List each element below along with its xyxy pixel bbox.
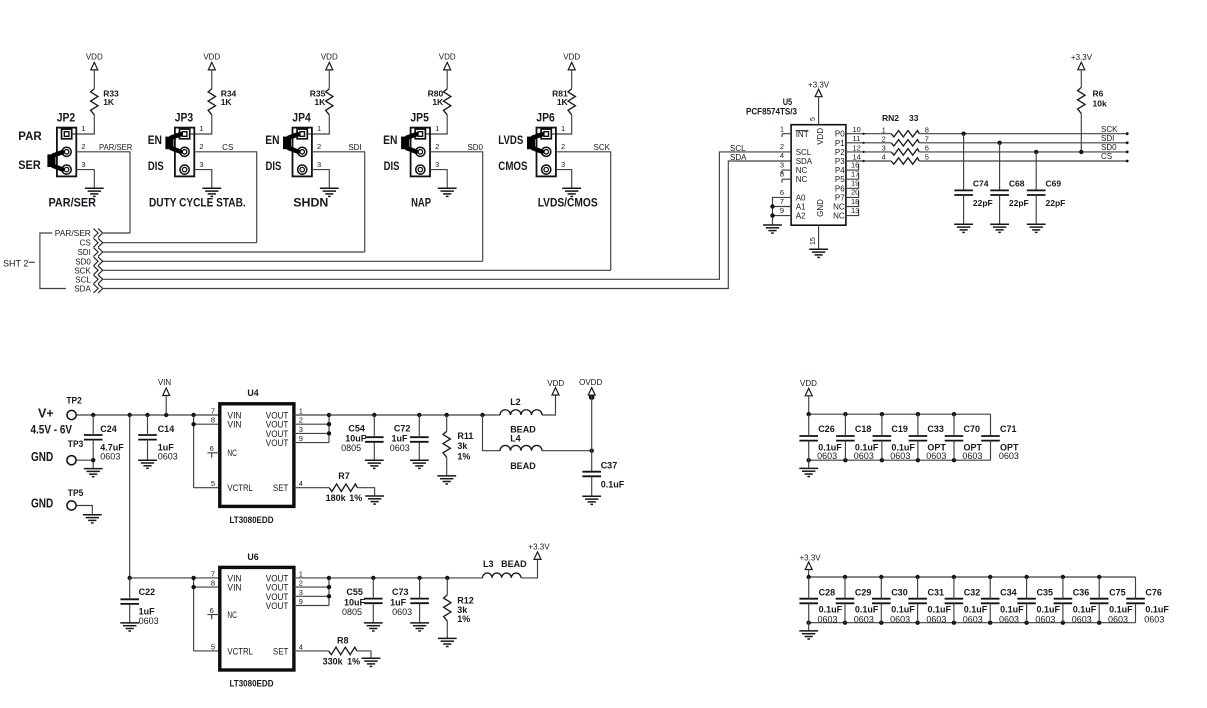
wire R8 to ground	[357, 651, 371, 658]
ground	[562, 188, 581, 196]
wire to C68	[999, 143, 1001, 191]
wire C14 to ground	[147, 440, 149, 461]
svg-text:NC: NC	[227, 610, 237, 621]
wire VDD to R	[571, 70, 573, 89]
svg-text:11: 11	[853, 134, 861, 143]
capacitor C69 22pF	[1027, 179, 1065, 208]
svg-text:VDD: VDD	[800, 379, 817, 388]
svg-text:VIN: VIN	[227, 420, 241, 431]
svg-text:SDA: SDA	[796, 157, 813, 166]
svg-text:C76: C76	[1145, 587, 1162, 597]
net flag CS	[94, 238, 103, 247]
svg-text:4: 4	[882, 153, 886, 162]
net flag SCK	[94, 266, 103, 275]
svg-text:0603: 0603	[926, 451, 946, 461]
ground	[438, 188, 457, 196]
wire 3.3V bank top rail	[809, 576, 1136, 578]
U5 pin 19 stub	[846, 179, 859, 189]
svg-text:10k: 10k	[1093, 99, 1107, 109]
svg-text:VDD: VDD	[439, 53, 456, 62]
wire U5 GND pin 15	[818, 225, 820, 249]
capacitor C37 0.1uF	[582, 460, 624, 489]
svg-text:12: 12	[853, 143, 861, 152]
power flag VDD (JP3 pull-up)	[203, 53, 220, 70]
svg-text:0603: 0603	[890, 451, 910, 461]
svg-text:V+: V+	[38, 406, 54, 421]
wire bus row SDI	[103, 251, 365, 253]
svg-text:SHDN: SHDN	[293, 196, 328, 210]
capacitor C68 22pF	[990, 179, 1028, 208]
svg-text:C31: C31	[928, 587, 945, 597]
junction dot C69	[1034, 150, 1038, 154]
U5 pin 18 stub	[846, 197, 859, 207]
junction dots 3.3V bank top rail	[807, 575, 1102, 579]
svg-text:DIS: DIS	[148, 161, 164, 173]
IC U5 PCF8574TS/3	[746, 97, 846, 225]
wire bus row SD0	[103, 260, 483, 262]
U5 inside pin names	[796, 128, 846, 221]
wire net SDI from pin 2 to bus	[312, 152, 365, 252]
svg-text:+3.3V: +3.3V	[800, 553, 822, 562]
svg-text:C22: C22	[139, 587, 156, 597]
svg-text:9: 9	[299, 434, 303, 443]
wire R to pin 1	[72, 115, 95, 134]
svg-text:1uF: 1uF	[390, 597, 407, 607]
svg-text:C32: C32	[964, 587, 981, 597]
svg-text:4: 4	[299, 479, 303, 488]
svg-text:2: 2	[81, 142, 85, 151]
wire 3.3V bank bottom rail	[809, 622, 1136, 624]
svg-text:16: 16	[851, 160, 859, 169]
junction dot C74	[961, 132, 965, 136]
junction dot OVDD node	[590, 449, 594, 453]
svg-text:5: 5	[925, 153, 929, 162]
svg-text:0603: 0603	[1144, 615, 1164, 625]
wire VDD bank to ground	[808, 460, 810, 468]
ground (R7)	[365, 496, 384, 504]
svg-text:A1: A1	[796, 203, 806, 212]
svg-text:C74: C74	[973, 179, 989, 189]
svg-text:10uF: 10uF	[345, 434, 367, 444]
regulator U6 LT3080EDD	[210, 552, 303, 670]
wire cap column	[844, 577, 846, 623]
power flag VDD (decoupling bank)	[800, 379, 817, 396]
svg-text:SDI: SDI	[77, 248, 90, 257]
wire rail to U6 VIN	[130, 577, 220, 579]
wire VDD bank bottom rail	[809, 459, 991, 461]
pin connection dot	[863, 160, 865, 162]
net flag SDA	[94, 284, 103, 293]
svg-text:C33: C33	[927, 424, 944, 434]
svg-text:0.1uF: 0.1uF	[1000, 605, 1024, 615]
svg-text:CS: CS	[222, 143, 233, 152]
capacitor C14 1uF	[138, 424, 178, 461]
svg-text:20: 20	[851, 188, 859, 197]
wire C24 to TP3 wire	[92, 440, 94, 461]
svg-text:7: 7	[925, 134, 929, 143]
wire VDD rail from U4	[329, 414, 500, 416]
svg-text:SD0: SD0	[1101, 143, 1117, 152]
svg-text:U4: U4	[247, 388, 259, 399]
wire VDD to R	[446, 70, 448, 89]
svg-text:VCTRL: VCTRL	[227, 646, 253, 657]
svg-text:VOUT: VOUT	[266, 438, 289, 449]
svg-text:CMOS: CMOS	[498, 161, 527, 173]
svg-text:CS: CS	[80, 239, 91, 248]
wire to U4 VIN pin8 and VCTRL	[194, 415, 220, 488]
U5 pin 17 stub	[846, 170, 859, 180]
sheet connector label SHT 2	[3, 258, 35, 268]
svg-text:VDD: VDD	[203, 53, 220, 62]
wire to C69	[1035, 152, 1037, 191]
pin numbers	[81, 124, 85, 169]
svg-text:SDI: SDI	[1101, 134, 1114, 143]
svg-text:TP2: TP2	[66, 396, 82, 407]
wire rail to C14	[147, 415, 149, 435]
svg-text:9: 9	[299, 597, 303, 606]
test point TP2	[66, 396, 82, 420]
capacitor C33 OPT	[909, 424, 947, 461]
wire TP5 to ground	[76, 506, 92, 515]
svg-text:0.1uF: 0.1uF	[928, 605, 952, 615]
regulator U4 LT3080EDD	[210, 388, 303, 506]
svg-text:C18: C18	[855, 424, 872, 434]
ground (R12)	[438, 638, 457, 646]
svg-text:+3.3V: +3.3V	[808, 81, 830, 90]
svg-text:P5: P5	[835, 175, 845, 184]
wire pin 3 to ground	[312, 170, 329, 189]
svg-text:BEAD: BEAD	[501, 559, 527, 569]
svg-text:C34: C34	[1000, 587, 1017, 597]
svg-text:0603: 0603	[926, 615, 946, 625]
jumper JP4	[292, 110, 312, 176]
svg-text:DUTY CYCLE STAB.: DUTY CYCLE STAB.	[149, 196, 246, 210]
svg-text:0603: 0603	[890, 615, 910, 625]
svg-text:LT3080EDD: LT3080EDD	[230, 515, 274, 526]
svg-text:DIS: DIS	[384, 161, 400, 173]
svg-text:0603: 0603	[854, 615, 874, 625]
svg-text:0603: 0603	[158, 451, 178, 461]
svg-text:L3: L3	[483, 559, 494, 569]
svg-text:VDD: VDD	[563, 53, 580, 62]
svg-text:2: 2	[780, 142, 784, 151]
svg-text:LT3080EDD: LT3080EDD	[230, 679, 274, 690]
svg-text:2: 2	[317, 142, 321, 151]
jumper JP6	[536, 110, 556, 176]
wire cap to ground	[963, 195, 965, 224]
pin numbers	[317, 124, 321, 169]
svg-text:R12: R12	[457, 595, 474, 605]
svg-text:NC: NC	[833, 212, 845, 221]
svg-text:1uF: 1uF	[391, 434, 408, 444]
svg-text:8: 8	[780, 170, 784, 179]
svg-text:SDA: SDA	[730, 153, 747, 162]
svg-text:0603: 0603	[962, 451, 982, 461]
wire end dot	[1126, 132, 1129, 135]
svg-text:0603: 0603	[392, 607, 412, 617]
svg-text:VDD: VDD	[86, 53, 103, 62]
svg-text:2: 2	[299, 579, 303, 588]
ground	[320, 188, 339, 196]
wire end dot	[1126, 160, 1129, 163]
junction dot C22	[128, 576, 132, 580]
svg-text:1: 1	[81, 124, 85, 133]
svg-text:8: 8	[211, 579, 215, 588]
svg-text:NC: NC	[796, 175, 808, 184]
test point TP3	[67, 439, 83, 465]
svg-text:C55: C55	[346, 587, 363, 597]
svg-text:1%: 1%	[347, 657, 360, 667]
svg-text:SCK: SCK	[1101, 125, 1118, 134]
svg-text:0.1uF: 0.1uF	[964, 605, 988, 615]
svg-text:C37: C37	[601, 460, 618, 470]
wire +3.3V to U5 pin 5	[818, 97, 820, 125]
svg-text:A2: A2	[796, 212, 806, 221]
capacitor C29 0.1uF	[836, 587, 879, 624]
svg-text:5: 5	[810, 117, 817, 121]
wire SET to R7	[294, 487, 329, 489]
svg-text:1K: 1K	[221, 97, 233, 107]
U5 pin 16 stub	[846, 160, 859, 170]
svg-text:13: 13	[851, 206, 859, 215]
svg-text:0805: 0805	[342, 607, 362, 617]
wire cap column	[808, 577, 810, 623]
svg-text:0603: 0603	[1035, 615, 1055, 625]
pin numbers 6 7 9	[780, 188, 784, 215]
svg-text:7: 7	[211, 569, 215, 578]
shunt on JP3	[165, 134, 180, 151]
svg-text:DIS: DIS	[266, 161, 282, 173]
svg-text:0.1uF: 0.1uF	[1037, 605, 1061, 615]
svg-text:0603: 0603	[854, 451, 874, 461]
net flag SDI	[94, 248, 103, 257]
svg-text:1: 1	[561, 124, 565, 133]
svg-text:NC: NC	[833, 203, 845, 212]
svg-text:2: 2	[882, 134, 886, 143]
svg-text:15: 15	[810, 237, 817, 245]
wire VDD to R	[328, 70, 330, 89]
capacitor C19 0.1uF	[873, 424, 916, 461]
capacitor C73 1uF	[390, 587, 429, 617]
wire cap to ground	[999, 195, 1001, 224]
wire to C74	[963, 134, 965, 191]
ground (C72)	[410, 460, 429, 468]
svg-text:GND: GND	[31, 449, 53, 464]
wire VIN flag	[165, 396, 167, 416]
svg-text:C75: C75	[1109, 587, 1126, 597]
resistor network RN2 33	[882, 113, 929, 164]
svg-text:EN: EN	[265, 135, 279, 147]
jumper JP5	[410, 110, 430, 176]
pin connection dot	[863, 142, 865, 144]
svg-text:+3.3V: +3.3V	[528, 543, 550, 552]
svg-text:EN: EN	[383, 135, 397, 147]
wire VDD bank top rail	[809, 413, 991, 415]
svg-text:SCK: SCK	[74, 266, 91, 275]
ground (R11)	[437, 476, 456, 484]
junction dots on 3.3V rail	[371, 576, 449, 580]
svg-text:3: 3	[780, 161, 784, 170]
svg-text:330k: 330k	[323, 657, 344, 667]
svg-text:TP3: TP3	[68, 439, 84, 450]
svg-text:2: 2	[199, 142, 203, 151]
svg-text:SCK: SCK	[594, 143, 611, 152]
svg-text:6: 6	[925, 144, 929, 153]
wire net PAR/SER from pin 2 to bus	[76, 152, 130, 233]
svg-text:0.1uF: 0.1uF	[819, 605, 843, 615]
wire V+ rail down to U6	[129, 415, 131, 578]
svg-text:JP3: JP3	[175, 110, 194, 124]
svg-text:19: 19	[851, 179, 859, 188]
power flag +3.3V (decoupling bank)	[800, 553, 822, 569]
svg-text:3k: 3k	[457, 441, 468, 451]
svg-text:22pF: 22pF	[1009, 198, 1029, 208]
svg-text:GND: GND	[31, 495, 53, 510]
wire +3.3V flag to rail	[808, 570, 810, 578]
wire pin 3 to ground	[556, 170, 572, 189]
svg-text:NAP: NAP	[411, 196, 431, 210]
svg-text:L2: L2	[510, 397, 521, 407]
svg-text:0603: 0603	[390, 443, 410, 453]
svg-text:GND: GND	[816, 199, 825, 217]
resistor R8 330k 1%	[323, 636, 361, 667]
svg-text:17: 17	[851, 170, 859, 179]
capacitor C18 0.1uF	[836, 424, 879, 461]
wire net SD0 from pin 2 to bus	[430, 152, 483, 261]
wire bus row CS	[103, 242, 257, 244]
wire to U6 VIN pin8 and VCTRL	[194, 578, 220, 651]
svg-text:0603: 0603	[139, 616, 159, 626]
svg-text:4: 4	[299, 642, 303, 651]
svg-text:SDI: SDI	[348, 143, 361, 152]
svg-text:1%: 1%	[349, 493, 362, 503]
ground	[954, 224, 973, 232]
svg-text:0603: 0603	[999, 615, 1019, 625]
svg-text:C28: C28	[819, 587, 836, 597]
svg-text:8: 8	[925, 125, 929, 134]
junction dot C68	[997, 141, 1001, 145]
wire cap column	[989, 577, 991, 623]
svg-text:PAR/SER: PAR/SER	[55, 229, 91, 238]
svg-text:7: 7	[211, 407, 215, 416]
wire +3.3V to R6	[1080, 70, 1082, 88]
svg-text:JP2: JP2	[57, 110, 76, 124]
wire end dot	[1126, 141, 1129, 144]
wire branch to L4	[483, 415, 501, 451]
svg-text:+3.3V: +3.3V	[1071, 53, 1093, 62]
ground	[1027, 224, 1046, 232]
wire cap column	[880, 577, 882, 623]
jumper JP2	[57, 110, 77, 176]
svg-text:3: 3	[299, 588, 303, 597]
capacitor C72 1uF	[390, 424, 429, 453]
NC pin 6 stub	[207, 615, 219, 620]
svg-text:0.1uF: 0.1uF	[601, 480, 625, 490]
wire U5 P2 through RN2 to SD0	[846, 151, 1127, 153]
svg-text:1: 1	[299, 569, 303, 578]
svg-text:C72: C72	[394, 424, 411, 434]
resistor R11 3k 1%	[443, 431, 473, 461]
svg-text:0.1uF: 0.1uF	[855, 605, 879, 615]
svg-text:1K: 1K	[432, 97, 444, 107]
svg-text:P0: P0	[835, 130, 845, 139]
svg-text:VOUT: VOUT	[266, 601, 289, 612]
capacitor C30 0.1uF	[872, 587, 915, 624]
svg-text:10uF: 10uF	[344, 597, 366, 607]
svg-text:P3: P3	[835, 157, 845, 166]
svg-text:C19: C19	[891, 424, 908, 434]
wire R to pin 1	[307, 115, 329, 134]
shunt on JP2	[47, 152, 62, 169]
svg-text:0603: 0603	[818, 615, 838, 625]
wire L3 to +3.3V flag	[521, 559, 538, 578]
net flag PAR/SER	[94, 229, 103, 238]
svg-text:22pF: 22pF	[1046, 198, 1066, 208]
junction dots 3.3V bank bottom rail	[807, 621, 1102, 625]
svg-text:U6: U6	[247, 552, 258, 563]
svg-text:0603: 0603	[1108, 615, 1128, 625]
svg-text:3: 3	[882, 144, 886, 153]
jumper JP3	[175, 110, 195, 176]
svg-text:PAR/SER: PAR/SER	[99, 143, 133, 152]
U5 pin 20 stub	[846, 188, 859, 198]
wire cap column	[1062, 577, 1064, 623]
svg-text:7: 7	[780, 197, 784, 206]
svg-text:PAR: PAR	[18, 131, 42, 143]
wire end dot	[1126, 151, 1129, 154]
junction dot	[91, 458, 95, 462]
capacitor C22 1uF	[120, 587, 158, 626]
ground (C54)	[365, 460, 384, 468]
svg-text:5: 5	[211, 479, 215, 488]
svg-text:RN2: RN2	[882, 113, 899, 123]
capacitor C28 0.1uF	[799, 587, 842, 624]
resistor R35 1K	[310, 88, 333, 114]
svg-text:R11: R11	[457, 431, 473, 441]
inductor L3 BEAD	[483, 559, 528, 578]
svg-text:P6: P6	[835, 184, 845, 193]
wire to C73	[419, 578, 421, 623]
shunt on JP4	[283, 134, 298, 151]
junction dots on A-pin wire	[770, 204, 774, 218]
svg-text:SET: SET	[273, 646, 289, 657]
svg-text:1: 1	[299, 407, 303, 416]
ground (C55)	[364, 623, 383, 631]
wire cap column	[844, 414, 846, 460]
svg-text:VIN: VIN	[158, 378, 172, 387]
capacitor C24 4.7uF	[84, 424, 124, 461]
capacitor C74 22pF	[954, 179, 992, 208]
power flag +3.3V (U6 out)	[528, 543, 550, 560]
svg-text:0.1uF: 0.1uF	[1109, 605, 1133, 615]
svg-text:C26: C26	[818, 424, 835, 434]
svg-text:C73: C73	[392, 587, 409, 597]
svg-text:3: 3	[199, 160, 203, 169]
wire L4 to OVDD node	[542, 450, 592, 452]
svg-text:C30: C30	[891, 587, 908, 597]
ground (R8)	[362, 658, 381, 666]
capacitor C36 0.1uF	[1054, 587, 1097, 624]
resistor R12 3k 1%	[444, 595, 474, 624]
svg-text:SCL: SCL	[730, 144, 746, 153]
wire 3.3V rail from U6	[329, 577, 483, 579]
svg-text:6: 6	[210, 444, 214, 453]
ground	[202, 188, 221, 196]
U5 pin 13 stub	[846, 206, 859, 216]
ground (3.3V bank)	[799, 631, 818, 639]
wire TP3 to ground	[76, 460, 93, 468]
svg-text:PCF8574TS/3: PCF8574TS/3	[746, 107, 797, 117]
